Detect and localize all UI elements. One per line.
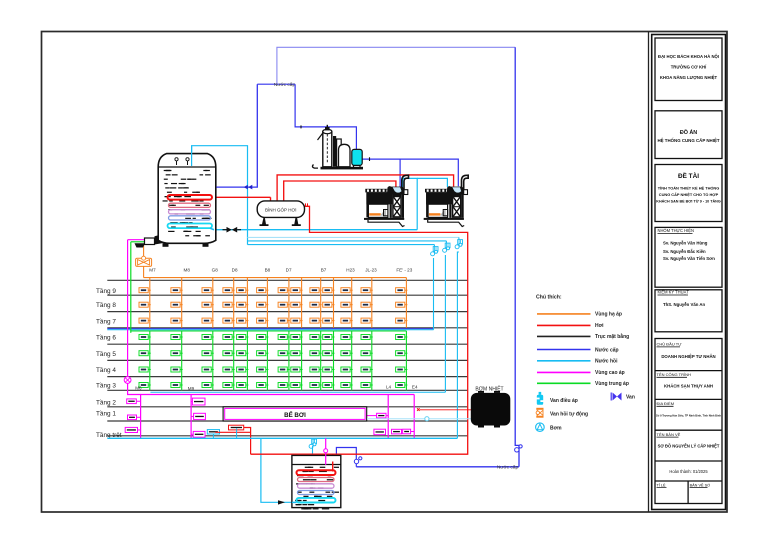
svg-text:Tầng 7: Tầng 7 [96,316,116,325]
svg-text:Nước cấp: Nước cấp [274,82,296,88]
svg-text:Bơm: Bơm [550,425,562,431]
svg-text:Nước cấp: Nước cấp [595,346,619,353]
svg-text:G8: G8 [212,268,219,273]
svg-text:Trục mặt bằng: Trục mặt bằng [595,333,629,340]
svg-text:Chú thích:: Chú thích: [536,294,562,300]
svg-text:Số 9 Trương Hán Siêu, TP Ninh: Số 9 Trương Hán Siêu, TP Ninh Bình, Tỉnh… [656,414,721,418]
svg-text:L4: L4 [386,385,392,390]
svg-text:JL-23: JL-23 [365,268,377,273]
svg-text:BỂ BƠI: BỂ BƠI [284,412,306,419]
svg-text:KHOA NĂNG LƯỢNG NHIỆT: KHOA NĂNG LƯỢNG NHIỆT [660,75,718,80]
svg-text:M8: M8 [184,268,191,273]
svg-text:Sv. Nguyễn Văn Tiến Sơn: Sv. Nguyễn Văn Tiến Sơn [663,256,715,261]
svg-text:Vùng trung áp: Vùng trung áp [595,381,629,387]
svg-text:Tầng 3: Tầng 3 [96,381,116,390]
svg-text:Tầng 5: Tầng 5 [96,349,116,358]
svg-text:NHÓM THỰC HIỆN: NHÓM THỰC HIỆN [658,228,694,233]
svg-text:Tầng 8: Tầng 8 [96,300,116,309]
svg-text:TRƯỜNG CƠ KHÍ: TRƯỜNG CƠ KHÍ [671,64,707,69]
svg-text:Van hồi tự động: Van hồi tự động [550,412,588,418]
svg-text:KHÁCH SẠN THỤY ANH: KHÁCH SẠN THỤY ANH [664,384,713,389]
svg-text:TÍNH TOÁN THIẾT KẾ HỆ THỐNG: TÍNH TOÁN THIẾT KẾ HỆ THỐNG [658,185,720,190]
svg-text:HỆ THỐNG CUNG CẤP NHIỆT: HỆ THỐNG CUNG CẤP NHIỆT [657,138,719,143]
svg-text:Nước hồi: Nước hồi [595,359,618,365]
svg-text:ĐỊA ĐIỂM: ĐỊA ĐIỂM [657,401,675,406]
svg-text:BÌNH GÓP HƠI: BÌNH GÓP HƠI [265,206,297,212]
svg-text:CHỦ ĐẦU TƯ: CHỦ ĐẦU TƯ [657,342,683,347]
svg-text:Nước cấp: Nước cấp [497,465,519,471]
svg-text:D7: D7 [286,268,292,273]
svg-text:ĐẠI HỌC BÁCH KHOA HÀ NỘI: ĐẠI HỌC BÁCH KHOA HÀ NỘI [658,54,719,59]
svg-text:KHÁCH SẠN BỂ BƠI TỪ 9 - 10 TẦN: KHÁCH SẠN BỂ BƠI TỪ 9 - 10 TẦNG [656,198,721,203]
svg-text:TÊN BẢN VẼ: TÊN BẢN VẼ [657,432,681,437]
svg-text:Tầng 2: Tầng 2 [96,397,116,406]
svg-text:Tầng 1: Tầng 1 [96,409,116,418]
svg-text:M7: M7 [149,268,156,273]
svg-text:Vùng cao áp: Vùng cao áp [595,370,625,376]
svg-text:E4: E4 [412,385,418,390]
svg-text:DOANH NGHIỆP TƯ NHÂN: DOANH NGHIỆP TƯ NHÂN [661,354,715,359]
svg-text:Tầng 4: Tầng 4 [96,365,116,374]
svg-text:TỈ LỆ: TỈ LỆ [657,483,667,488]
svg-text:CUNG CẤP NHIỆT CHO TỔ HỢP: CUNG CẤP NHIỆT CHO TỔ HỢP [659,192,719,197]
svg-text:B8: B8 [265,268,271,273]
svg-text:Sv. Nguyễn Đắc Kiên: Sv. Nguyễn Đắc Kiên [663,249,706,254]
svg-text:Tầng 6: Tầng 6 [96,333,116,342]
svg-text:TÊN CÔNG TRÌNH: TÊN CÔNG TRÌNH [657,372,691,377]
svg-text:Vùng hạ áp: Vùng hạ áp [595,312,622,318]
svg-text:ThS. Nguyễn Văn An: ThS. Nguyễn Văn An [663,302,705,307]
svg-text:KIỂM KỸ THUẬT: KIỂM KỸ THUẬT [658,290,690,295]
svg-text:FE' - 23: FE' - 23 [396,268,412,273]
svg-text:M9: M9 [188,386,195,391]
svg-text:B7: B7 [321,268,327,273]
svg-text:Van điều áp: Van điều áp [550,398,578,404]
svg-text:Van: Van [626,395,635,401]
svg-text:H23: H23 [346,268,355,273]
svg-text:D8: D8 [232,268,238,273]
svg-text:BẢN VẼ SỐ: BẢN VẼ SỐ [690,483,711,488]
svg-text:M6: M6 [135,385,142,390]
svg-text:Sv. Nguyễn Văn Hùng: Sv. Nguyễn Văn Hùng [663,240,708,245]
svg-text:Tầng 9: Tầng 9 [96,286,116,295]
svg-text:Hơi: Hơi [595,323,604,329]
svg-text:SƠ ĐỒ NGUYÊN LÝ CẤP NHIỆT: SƠ ĐỒ NGUYÊN LÝ CẤP NHIỆT [658,444,720,449]
svg-text:ĐỒ ÁN: ĐỒ ÁN [680,129,697,136]
svg-text:Hoàn thành: 01/2025: Hoàn thành: 01/2025 [669,469,708,474]
